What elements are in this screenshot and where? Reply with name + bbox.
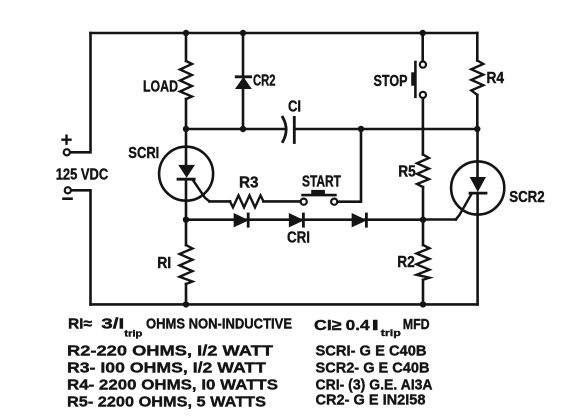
- wire CR1 diode string: [186, 218, 423, 221]
- note R5 value: [67, 394, 266, 411]
- node mid CR2: [240, 126, 246, 132]
- label R3: [239, 175, 259, 192]
- svg-text:R3: R3: [239, 175, 259, 192]
- svg-text:R2-220 OHMS, I/2 WATT: R2-220 OHMS, I/2 WATT: [67, 343, 274, 360]
- wire mid bus right of C1: [294, 128, 477, 131]
- node mid LOAD/SCR1: [183, 126, 189, 132]
- svg-text:LOAD: LOAD: [143, 79, 178, 96]
- svg-text:R5: R5: [398, 164, 416, 181]
- node SCR1 cathode: [183, 217, 189, 223]
- svg-text:MFD: MFD: [403, 316, 430, 333]
- pushbutton START (normally open): [301, 190, 338, 205]
- label SCR2: [509, 189, 545, 206]
- resistor R3: [230, 195, 264, 207]
- wire - terminal to bottom bus: [72, 190, 91, 304]
- thyristor SCR2: [451, 161, 504, 304]
- wire SCR1 gate to R3: [210, 200, 231, 203]
- wire mid node to SCR2 anode: [476, 129, 479, 178]
- svg-text:SCRI- G E C40B: SCRI- G E C40B: [316, 343, 427, 360]
- node mid START: [358, 126, 364, 132]
- wire R2 to bottom bus: [422, 280, 425, 305]
- label 125 VDC: [56, 167, 108, 184]
- resistor R5: [417, 155, 429, 188]
- svg-text:RI: RI: [157, 255, 171, 272]
- pushbutton STOP (normally closed): [411, 33, 426, 155]
- node top CR2: [240, 30, 246, 36]
- note CR2 type: [316, 392, 426, 409]
- svg-text:SCR2: SCR2: [509, 189, 545, 206]
- note R4 value: [67, 377, 278, 394]
- label R1: [157, 255, 171, 272]
- capacitor C1: [283, 117, 295, 142]
- resistor R1: [180, 245, 193, 284]
- svg-text:CR2- G E IN2I58: CR2- G E IN2I58: [316, 392, 426, 409]
- node mid R4: [474, 126, 480, 132]
- label STOP: [374, 73, 408, 90]
- terminal + (positive): [63, 136, 71, 156]
- svg-text:R4: R4: [487, 70, 505, 87]
- wire SCR1 cathode to R1: [185, 219, 188, 245]
- svg-text:R5- 2200 OHMS, 5 WATTS: R5- 2200 OHMS, 5 WATTS: [67, 394, 266, 411]
- diode CR2 branch wire: [242, 33, 245, 129]
- label START: [302, 174, 341, 191]
- label R4: [487, 70, 505, 87]
- wire R3 to START: [264, 200, 301, 203]
- label SCR1: [128, 145, 159, 162]
- wire top bus: [91, 32, 478, 35]
- wire top bus to R4: [476, 33, 479, 61]
- diode CR1 a: [234, 214, 248, 226]
- resistor R4: [471, 61, 483, 95]
- wire START to C1 node: [337, 129, 361, 202]
- wire mid bus left of C1: [186, 128, 285, 131]
- svg-text:trip: trip: [124, 328, 142, 339]
- diode CR1 b: [290, 214, 304, 226]
- label R2: [397, 254, 415, 271]
- node bottom R2: [420, 301, 426, 307]
- svg-text:CI≥: CI≥: [314, 317, 342, 334]
- note R2 value: [67, 343, 274, 360]
- svg-text:RI≈: RI≈: [68, 315, 93, 332]
- wire LOAD branch top: [185, 33, 188, 61]
- wire bottom bus: [91, 303, 478, 306]
- svg-text:R4- 2200 OHMS, I0 WATTS: R4- 2200 OHMS, I0 WATTS: [67, 377, 278, 394]
- note CR1 type: [316, 377, 433, 394]
- svg-text:STOP: STOP: [374, 73, 408, 90]
- diode CR2: [236, 77, 250, 88]
- node top LOAD: [183, 30, 189, 36]
- wire R5 to gate node: [422, 187, 425, 219]
- label R5: [398, 164, 416, 181]
- svg-text:R3- I00 OHMS, I/2 WATT: R3- I00 OHMS, I/2 WATT: [67, 360, 267, 377]
- svg-text:START: START: [302, 174, 341, 191]
- svg-text:3/I: 3/I: [101, 315, 124, 332]
- svg-text:trip: trip: [381, 328, 401, 339]
- note R3 value: [67, 360, 267, 377]
- svg-text:SCRI: SCRI: [128, 145, 159, 162]
- svg-text:125 VDC: 125 VDC: [56, 167, 108, 184]
- wire left vertical to + terminal: [71, 33, 91, 152]
- label LOAD: [143, 79, 178, 96]
- label CR1: [287, 230, 310, 247]
- wire R1 to bottom bus: [185, 284, 188, 304]
- wire SCR2 gate to node: [423, 218, 456, 221]
- thyristor SCR1: [159, 129, 213, 219]
- resistor LOAD: [180, 61, 192, 99]
- node bottom R1: [183, 301, 189, 307]
- svg-text:CI: CI: [288, 99, 301, 116]
- svg-text:R2: R2: [397, 254, 415, 271]
- resistor R2: [417, 245, 430, 280]
- node top STOP: [420, 30, 426, 36]
- svg-text:CRI: CRI: [287, 230, 310, 247]
- svg-text:CR2: CR2: [253, 73, 276, 90]
- note SCR2 type: [316, 360, 430, 377]
- svg-text:I: I: [372, 317, 380, 334]
- wire gate node to R2: [422, 219, 425, 245]
- wire R4 to mid bus node: [476, 95, 479, 129]
- note SCR1 type: [316, 343, 427, 360]
- terminal - (negative): [64, 187, 72, 199]
- svg-text:0.4: 0.4: [346, 317, 371, 334]
- note C1 value: [314, 316, 430, 339]
- note R1 value: [68, 315, 292, 339]
- label CR2: [253, 73, 276, 90]
- svg-text:SCR2- G E C40B: SCR2- G E C40B: [316, 360, 430, 377]
- svg-text:OHMS NON-INDUCTIVE: OHMS NON-INDUCTIVE: [146, 315, 292, 332]
- wire LOAD bottom: [185, 99, 188, 129]
- label C1: [288, 99, 301, 116]
- node SCR2 gate: [420, 217, 426, 223]
- diode CR1 c: [352, 214, 366, 226]
